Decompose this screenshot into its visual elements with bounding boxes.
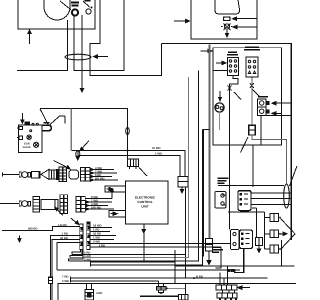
stadium connector: [69, 170, 79, 179]
needle pointer to L1: [60, 1, 71, 10]
trunk wire 2 gray: [70, 77, 189, 257]
check valve V1: [221, 24, 233, 31]
EGR top connector: [25, 122, 29, 125]
arrow up at cluster bottom: [28, 30, 31, 44]
trunk wire 3: [69, 71, 199, 262]
EGR terminal 2: [17, 136, 23, 139]
twist mark X2: [250, 83, 254, 88]
svg-text:WD RD: WD RD: [28, 227, 37, 231]
inline connector C1: [224, 17, 231, 21]
pointer to C4: [241, 137, 249, 153]
trunk wire 6: [57, 269, 240, 271]
wire from distributor down: [219, 112, 221, 130]
injector connector 2: [270, 230, 281, 238]
TPS stack pair A: [60, 195, 63, 214]
end plug: [179, 295, 189, 300]
wire from coil bottom: [253, 116, 261, 188]
chain2 wire 1: [85, 189, 113, 199]
trunk wire 1 lower leg: [184, 254, 186, 278]
arrow to coil pin 1: [272, 102, 291, 105]
tap wire from bold feed: [203, 130, 209, 257]
grommet pointer arrow: [94, 55, 109, 58]
connector stack B: [63, 167, 66, 182]
bracket funnel top: [40, 109, 71, 126]
branch wire with grommet: [76, 150, 79, 160]
ignition relay socket: [215, 192, 226, 209]
bulkhead right wire 3: [90, 234, 116, 236]
A/C connector label: [227, 52, 238, 56]
bulkhead left wire 2: [50, 235, 79, 277]
sensor end tick: [2, 172, 4, 176]
auto shutdown relay label: [212, 247, 223, 254]
chain2 wire 4: [85, 208, 114, 210]
wire to A/C connector pin: [213, 69, 228, 71]
arrow into engine box: [201, 49, 213, 52]
injector connector 3: [270, 245, 281, 253]
bottom right connector strip row 1: [216, 285, 237, 290]
svg-text:5 WD: 5 WD: [84, 258, 91, 262]
inline connector C4: [249, 125, 256, 135]
trunk wire 4: [91, 130, 210, 267]
strip row 2 feet: [219, 298, 237, 300]
svg-text:VALVE: VALVE: [23, 146, 32, 149]
wire from A/C connector bottom: [230, 76, 239, 93]
pointer to twist mark: [234, 92, 241, 100]
chain1 wire 4: [90, 179, 118, 181]
bold bottom wire: [140, 295, 179, 297]
electronic control unit: [126, 181, 169, 224]
distributor pickup: [215, 103, 224, 112]
shutdown relay socket: [231, 230, 240, 250]
clip label: [44, 122, 50, 124]
TPS stack pair B: [64, 195, 67, 214]
svg-text:UNIT: UNIT: [141, 205, 148, 209]
TPS pin column C: [76, 196, 80, 212]
arrow into distributor: [218, 91, 221, 101]
junction dot on 10WD wire: [127, 149, 129, 151]
capacitor feed wire: [71, 109, 127, 160]
small grommet on feed: [126, 128, 130, 135]
chain2 wire 3: [85, 204, 108, 206]
staircase to trunk 3: [69, 250, 83, 262]
svg-text:1 WD: 1 WD: [155, 151, 162, 155]
TPS plug: [19, 201, 30, 207]
staircase to trunk 2: [70, 250, 82, 258]
trunk wire 1: [72, 187, 185, 254]
relay2 bottom bold wire: [234, 249, 244, 273]
relay wire long 1: [90, 242, 231, 244]
pointer to branch: [80, 141, 89, 151]
noise capacitor: [128, 159, 139, 169]
EGR solenoid box: [19, 125, 43, 152]
coil label: [258, 96, 268, 98]
TPS long cylinder: [41, 200, 58, 210]
double drop continues to bottom: [50, 284, 52, 300]
ECU bottom arrow wire: [142, 224, 145, 262]
bulkhead left wire 4: [57, 243, 80, 270]
svg-text:4 RD: 4 RD: [96, 291, 102, 295]
chain1 wire 2: [90, 172, 117, 174]
bracket bolt circles: [32, 123, 34, 125]
TPS pin column D: [81, 196, 86, 212]
wire cluster lead 1: [17, 20, 68, 71]
bulkhead right wire 4: [90, 238, 114, 240]
chain1 wire 1: [90, 168, 114, 170]
bottom right connector strip row 2: [217, 293, 237, 298]
inline connector near ECU right: [178, 177, 188, 188]
chain1 wire 3: [90, 175, 112, 177]
svg-text:ELECTRONIC: ELECTRONIC: [135, 196, 156, 200]
svg-text:2 WD: 2 WD: [62, 279, 69, 283]
ground arrow left: [18, 236, 21, 242]
bulkhead short wire 2RD: [90, 246, 113, 248]
vacuum clip: [42, 125, 52, 130]
ECU wire 10WD: [71, 150, 185, 176]
pointer arrow to C1: [233, 17, 258, 20]
coil bottom wire: [266, 115, 291, 117]
column B cap: [87, 222, 90, 224]
needle pointer to L2: [83, 1, 90, 7]
TPS hatched column: [33, 196, 40, 212]
wire drop to end plug: [185, 283, 187, 294]
ECU wire 1WD: [78, 155, 180, 176]
sensor plug: [19, 172, 30, 178]
lamp L2 label: [85, 0, 91, 2]
arrow to coil pin 2: [272, 112, 282, 115]
arrow below connector: [180, 187, 183, 193]
pointer into cylinder: [55, 207, 63, 215]
wire 2 WD: [70, 279, 158, 282]
relay output wires: [222, 193, 291, 205]
relay wire long 2: [90, 247, 221, 268]
long wire B RD: [70, 277, 267, 280]
arrow into A/C connector: [216, 61, 226, 64]
sensor cone: [41, 169, 49, 179]
relay feed wire top: [218, 184, 284, 186]
bulkhead left wire 3: [52, 240, 80, 278]
tab 1 arrow: [107, 188, 114, 191]
svg-text:LG RD: LG RD: [58, 223, 67, 227]
trunk wire 5: [91, 250, 176, 283]
bulkhead right wire 1: [90, 226, 112, 228]
gray branch wire with connector: [251, 78, 253, 125]
svg-text:10 WD: 10 WD: [152, 146, 161, 150]
arrow into strip row 1: [238, 286, 250, 289]
svg-text:7 RD: 7 RD: [62, 274, 68, 278]
svg-text:DRI WD: DRI WD: [91, 205, 101, 209]
pointer arrow into reservoir box: [174, 19, 190, 22]
indicator lamp L1: [72, 9, 78, 15]
svg-text:BN WD: BN WD: [95, 176, 104, 180]
bold feed continues with arrow: [207, 251, 211, 265]
EGR small port: [30, 130, 32, 132]
tab 2 arrow: [111, 212, 118, 215]
EGR screw 1: [27, 135, 31, 139]
EGR screw 2: [34, 142, 39, 147]
wire continues to shutdown relay socket: [229, 92, 231, 230]
EGR arrow: [21, 113, 24, 123]
engine compartment outer box: [162, 44, 292, 241]
ribbed cylinder: [49, 170, 58, 180]
long wire to bottom strip: [175, 240, 294, 266]
bold feed wire right section: [209, 45, 211, 239]
strip feed wires: [220, 266, 235, 293]
inline fuse connector: [256, 238, 263, 246]
firewall grommet: [65, 54, 91, 60]
branch grommet: [76, 151, 80, 158]
start/fuel connector label: [244, 47, 260, 51]
indicator lamp L2: [86, 9, 91, 14]
connector stack A: [59, 167, 62, 182]
bulkhead left wire 1 long: [2, 227, 80, 231]
pointer to capacitor: [139, 168, 147, 177]
wire from relay1 to fuse: [252, 208, 257, 238]
junction dot at L2: [91, 7, 93, 9]
pointer to wire X2: [253, 90, 261, 98]
bulkhead connector column A: [80, 224, 83, 250]
harness grommet right: [284, 184, 290, 208]
converging wires to apex: [281, 219, 296, 250]
bottom box edge: [58, 283, 296, 300]
twist mark X1: [228, 86, 232, 91]
pointer to grommet: [290, 166, 298, 186]
engine compartment inner box: [213, 48, 282, 145]
TPS sensor lead: [0, 203, 19, 205]
svg-text:2 RD: 2 RD: [99, 243, 105, 247]
pin column C: [81, 168, 85, 182]
bracket inner lines: [50, 116, 65, 124]
ignition coil: [258, 99, 270, 116]
staircase to trunk 1: [72, 250, 81, 255]
inline connector on bold feed: [206, 239, 213, 252]
instrument cluster box: [18, 0, 95, 29]
reservoir enclosure box: [191, 0, 257, 39]
wire cluster lead 2: [74, 0, 124, 71]
injector feed vertical: [228, 212, 270, 249]
ECU left tab 1: [105, 186, 126, 192]
washer reservoir: [215, 0, 240, 14]
pointer arrow to chain 1: [54, 161, 71, 169]
shutdown relay: [240, 230, 253, 249]
pin column D: [86, 168, 90, 182]
chain2 wire 2: [85, 201, 112, 203]
gray branch continues: [252, 135, 287, 184]
lamp L1 label: [71, 2, 79, 7]
injector connector 1: [270, 214, 281, 222]
coolant sensor symbol: [156, 281, 185, 294]
arrow to apex: [281, 232, 288, 235]
junction dot B RD: [193, 277, 195, 279]
sensor barrel: [32, 172, 40, 178]
start/fuel check connector: [246, 57, 258, 77]
bulkhead right wire 2: [90, 230, 110, 232]
bold harness down from EGR: [70, 109, 72, 151]
A/C cutout relay connector: [228, 58, 239, 76]
ballast resistor: [85, 283, 94, 300]
pointer arrow to V1: [233, 25, 257, 28]
wire cluster lead 4: [90, 0, 162, 76]
gauge dial U: [44, 0, 70, 20]
ignition relay label: [218, 178, 229, 185]
wire from start connector bottom: [251, 77, 253, 98]
bulkhead connector column B: [87, 222, 90, 250]
ECU left tab 2: [109, 210, 126, 217]
svg-text:42 RD: 42 RD: [60, 236, 68, 240]
arrow down from V1: [225, 30, 228, 37]
ignition relay: [238, 191, 251, 211]
oxygen sensor lead: [3, 173, 20, 175]
pointer arrow to bulkhead: [71, 218, 79, 225]
bottom strip feed wires: [215, 248, 221, 268]
inline connector on double drop: [49, 277, 53, 283]
wire cluster lead 3 with down arrow: [80, 15, 83, 92]
arrow below fuse: [257, 246, 260, 253]
EGR terminal 1: [17, 126, 23, 129]
svg-text:CONTROL: CONTROL: [137, 200, 152, 204]
svg-text:B RD: B RD: [196, 274, 203, 278]
